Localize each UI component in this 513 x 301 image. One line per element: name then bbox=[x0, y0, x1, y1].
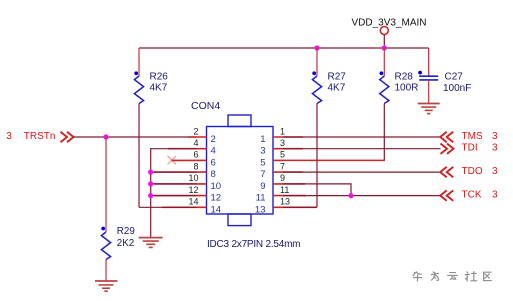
wire: pin14 row from R26 corner bbox=[139, 206, 197, 208]
wire: rail corner down to C27 bbox=[428, 48, 430, 76]
port TDO bbox=[440, 166, 498, 177]
resistor R29 bbox=[101, 226, 134, 259]
junction dot rail/R28 bbox=[382, 45, 387, 50]
wire: pin10 to bus bbox=[151, 183, 197, 185]
wire: junction down to R29 bbox=[105, 137, 107, 232]
resistor R28 bbox=[380, 71, 419, 103]
svg-text:6: 6 bbox=[211, 157, 216, 168]
svg-text:R29: R29 bbox=[117, 226, 135, 237]
wire: VDD_3V3_MAIN top rail bbox=[139, 47, 429, 49]
svg-text:R26: R26 bbox=[150, 71, 169, 82]
svg-text:2: 2 bbox=[193, 126, 198, 136]
connector CON4 body bbox=[191, 100, 273, 226]
wire: pin6 stub to cross bbox=[172, 159, 197, 161]
svg-text:TMS: TMS bbox=[462, 131, 483, 142]
wire: rail down to R28 bbox=[383, 48, 385, 76]
svg-text:10: 10 bbox=[211, 181, 222, 192]
svg-text:8: 8 bbox=[211, 169, 216, 180]
pin 4 stub bbox=[168, 138, 216, 157]
svg-text:11: 11 bbox=[280, 185, 289, 195]
svg-text:100R: 100R bbox=[395, 83, 419, 94]
svg-text:4: 4 bbox=[193, 138, 198, 148]
pin 8 stub bbox=[154, 161, 216, 180]
wire: pin11 to TCK port bbox=[283, 195, 440, 197]
svg-text:4K7: 4K7 bbox=[150, 83, 168, 94]
capacitor C27 bbox=[418, 71, 471, 94]
svg-text:VDD_3V3_MAIN: VDD_3V3_MAIN bbox=[352, 18, 427, 29]
svg-text:4K7: 4K7 bbox=[328, 83, 346, 94]
svg-text:1: 1 bbox=[260, 134, 265, 145]
ground below R29 bbox=[95, 281, 118, 291]
wire: pin7 to TDO port bbox=[283, 171, 440, 173]
svg-text:IDC3 2x7PIN 2.54mm: IDC3 2x7PIN 2.54mm bbox=[207, 239, 300, 250]
wire: pin1 to TMS port bbox=[283, 136, 440, 138]
port TRSTn bbox=[6, 131, 73, 142]
pin 2 stub bbox=[188, 126, 216, 145]
svg-text:100nF: 100nF bbox=[443, 83, 471, 94]
svg-text:CON4: CON4 bbox=[191, 100, 220, 112]
wire: rail down to R27 bbox=[316, 48, 318, 76]
wire: R28 down to pin5 row bbox=[283, 104, 385, 161]
junction dot bus/pin8 bbox=[148, 170, 153, 175]
svg-text:2: 2 bbox=[211, 134, 216, 145]
svg-text:TDO: TDO bbox=[462, 166, 483, 177]
svg-text:1: 1 bbox=[280, 126, 285, 136]
wire: C27 down to ground bbox=[428, 80, 430, 103]
wire: pin3 to TDI port bbox=[283, 148, 441, 150]
svg-text:R28: R28 bbox=[395, 71, 414, 82]
svg-text:10: 10 bbox=[188, 173, 198, 183]
no-connect cross pin6 bbox=[168, 156, 177, 165]
svg-text:4: 4 bbox=[211, 146, 216, 157]
pin 14 stub bbox=[162, 197, 221, 216]
junction dot rail/R27 bbox=[314, 45, 319, 50]
pin 5 stub bbox=[260, 150, 285, 169]
pin 11 stub bbox=[256, 185, 306, 204]
resistor R27 bbox=[312, 71, 346, 103]
wire: R27 down to pin13 row bbox=[316, 104, 318, 208]
wire: R26 down to pin14 row (crosses TRSTn wire) bbox=[138, 104, 140, 208]
svg-text:14: 14 bbox=[211, 204, 222, 215]
svg-text:13: 13 bbox=[280, 197, 290, 207]
svg-text:9: 9 bbox=[260, 181, 265, 192]
svg-text:2K2: 2K2 bbox=[117, 238, 134, 249]
svg-text:12: 12 bbox=[211, 193, 222, 204]
svg-text:3: 3 bbox=[492, 143, 498, 154]
resistor R26 bbox=[134, 71, 168, 103]
ground below bus bbox=[139, 238, 163, 248]
svg-text:12: 12 bbox=[188, 185, 198, 195]
watermark 华为云社区 bbox=[413, 272, 491, 282]
svg-text:6: 6 bbox=[193, 150, 198, 160]
pin 7 stub bbox=[260, 161, 303, 180]
svg-text:R27: R27 bbox=[328, 71, 347, 82]
wire: ground bus pin4 corner bbox=[151, 149, 197, 238]
port TCK bbox=[440, 190, 498, 201]
junction dot TRSTn/R29 bbox=[103, 134, 108, 139]
wire: pin8 to bus bbox=[151, 171, 197, 173]
ground below C27 bbox=[418, 104, 440, 114]
pin 6 stub bbox=[193, 150, 215, 169]
svg-text:7: 7 bbox=[280, 161, 285, 171]
pin 10 stub bbox=[154, 173, 221, 192]
svg-text:3: 3 bbox=[492, 190, 498, 201]
power symbol VDD_3V3_MAIN bbox=[352, 18, 427, 49]
svg-text:3: 3 bbox=[492, 131, 498, 142]
pin 1 stub bbox=[260, 126, 303, 145]
svg-text:3: 3 bbox=[260, 146, 265, 157]
wire: pin13 to R27 bbox=[283, 206, 317, 208]
svg-text:8: 8 bbox=[193, 161, 198, 171]
pin 9 stub bbox=[260, 173, 305, 192]
junction dot pin9/pin11 TCK bbox=[348, 193, 353, 198]
pin 12 stub bbox=[154, 185, 221, 204]
junction dot bus/pin12 bbox=[148, 193, 153, 198]
svg-text:TCK: TCK bbox=[462, 190, 482, 201]
port TMS bbox=[440, 131, 498, 142]
svg-text:3: 3 bbox=[6, 131, 12, 142]
wire: TRSTn to pin2 bbox=[74, 136, 197, 138]
svg-text:14: 14 bbox=[188, 197, 198, 207]
svg-text:13: 13 bbox=[255, 204, 266, 215]
wire: pin12 to bus bbox=[151, 195, 197, 197]
svg-text:C27: C27 bbox=[445, 71, 464, 82]
wire: pin9 corner to TCK row bbox=[283, 184, 351, 196]
svg-text:3: 3 bbox=[280, 138, 285, 148]
svg-text:11: 11 bbox=[256, 193, 266, 204]
pin 13 stub bbox=[255, 197, 316, 216]
pin 3 stub bbox=[260, 138, 303, 157]
svg-text:5: 5 bbox=[260, 157, 265, 168]
svg-text:TDI: TDI bbox=[462, 143, 478, 154]
svg-text:7: 7 bbox=[260, 169, 265, 180]
svg-text:5: 5 bbox=[280, 150, 285, 160]
svg-text:3: 3 bbox=[492, 166, 498, 177]
wire: R29 down to ground bbox=[105, 260, 107, 282]
svg-text:9: 9 bbox=[280, 173, 285, 183]
wire: rail down to R26 bbox=[138, 48, 140, 76]
svg-text:TRSTn: TRSTn bbox=[24, 131, 56, 142]
junction dot bus/pin10 bbox=[148, 181, 153, 186]
port TDI bbox=[441, 143, 499, 154]
